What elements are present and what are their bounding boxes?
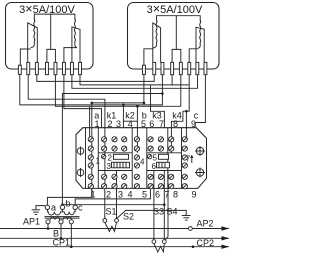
mounting hole left bottom <box>77 169 84 176</box>
link bar plain left <box>114 154 129 159</box>
svg-text:S1: S1 <box>106 206 117 216</box>
wire bus a: PT-a junction to rs1 <box>92 102 144 104</box>
wire rs8 around c label to block <box>195 75 205 128</box>
col 3 <box>112 137 117 142</box>
AP2 circle <box>189 227 193 231</box>
wire below numbers to PT-c <box>75 188 150 205</box>
svg-text:S2: S2 <box>123 212 134 222</box>
left box element 1 jog to stud1 <box>20 49 30 66</box>
wire s3 to rs2 <box>37 75 154 82</box>
plug S3-S4 W <box>154 244 164 252</box>
wire S4 lever down to plug <box>165 210 168 240</box>
col 5 <box>134 137 139 142</box>
right box element 2 jog to stud rs6 <box>189 49 197 63</box>
wire 4-box top bridge <box>123 120 137 122</box>
col 4 <box>122 137 127 142</box>
right box element 1 parallelogram <box>153 23 161 63</box>
svg-text:CP1: CP1 <box>53 238 71 248</box>
left box studs <box>18 65 21 74</box>
wire col1-left drop <box>89 106 91 127</box>
wire PT-b stub to circle <box>61 204 63 207</box>
wire rs6 down around 8 label to block <box>171 75 189 128</box>
block divider 6 <box>181 128 183 189</box>
plug S1-S2 circles <box>103 219 107 223</box>
svg-text:5: 5 <box>142 190 147 200</box>
wire PT-a long vertical through block <box>91 103 93 197</box>
PT secondary circles <box>46 220 50 224</box>
svg-text:6: 6 <box>152 162 157 171</box>
bus line L1 <box>0 228 229 230</box>
terminal circles grid <box>88 137 187 189</box>
meter box left outline <box>6 3 94 70</box>
left box element 1 parallelogram <box>28 23 38 63</box>
col 7 <box>158 137 163 142</box>
svg-text:6: 6 <box>155 190 160 200</box>
col 8 <box>169 137 174 142</box>
link bar plain right <box>159 154 169 159</box>
left box element 1 coil (wavy) <box>31 19 35 48</box>
mid extra circle left <box>101 154 105 158</box>
left box element 2 jog to stud6 <box>64 48 77 63</box>
left box top wire <box>34 14 75 20</box>
svg-text:CP2: CP2 <box>197 238 215 248</box>
block mid horizontal lines <box>98 152 132 154</box>
svg-text:c: c <box>78 203 83 213</box>
mid extra circle right <box>147 154 151 158</box>
svg-text:7: 7 <box>164 190 169 200</box>
svg-text:8: 8 <box>173 190 178 200</box>
wire k3 bypass down around k3 label <box>151 85 165 128</box>
svg-text:1: 1 <box>90 190 95 200</box>
arrow L3 <box>222 245 230 249</box>
arrow L1 <box>222 226 230 230</box>
right box element 1 coil (wavy) <box>153 20 157 48</box>
wire s6 to block col2-left <box>64 75 102 128</box>
svg-text:3: 3 <box>118 190 123 200</box>
mounting hole left top <box>77 148 84 155</box>
col 6 <box>148 137 153 142</box>
junction dot PT-a <box>91 102 94 105</box>
mounting hole right bottom <box>196 169 203 176</box>
block left divider <box>85 128 87 189</box>
secondary drop to L1 <box>47 224 49 229</box>
meter box right outline <box>128 3 220 70</box>
wire col7 down via dot to plug S4 <box>163 188 165 239</box>
link bar hatched right <box>157 162 170 168</box>
wire col2 down to plug S1 <box>104 188 106 218</box>
wire s8 along to rs6 vertical <box>80 75 189 85</box>
PT primary winding T2 <box>62 210 75 215</box>
right box studs <box>143 65 146 74</box>
right box element 1 jog to stud rs1 <box>144 49 153 66</box>
PT core lines <box>45 216 80 218</box>
svg-text:4: 4 <box>127 190 132 200</box>
svg-text:9: 9 <box>191 190 196 200</box>
bus line L3 <box>0 246 229 248</box>
left box element 2 coil (wavy) <box>74 19 77 48</box>
wire s2 down to block col2 <box>28 75 105 128</box>
CP2 dot <box>192 245 195 248</box>
small arrow next to 7 <box>191 156 193 163</box>
col 9 <box>182 137 187 142</box>
S4 ground wire <box>168 210 186 215</box>
svg-text:3: 3 <box>107 162 112 171</box>
wire col4 drop <box>122 105 124 128</box>
junction dot col5 <box>136 105 139 108</box>
wire col9 drop <box>185 111 187 128</box>
secondary drop to L2 <box>60 224 62 238</box>
right box mid fork wire to studs rs4,rs5 <box>172 16 176 63</box>
right box element 2 parallelogram <box>196 27 204 62</box>
PT primary winding T1 <box>47 210 62 215</box>
wire block col1 down to PT-a <box>47 188 91 205</box>
plug S3-S4 circles <box>152 240 156 244</box>
block divider 4 <box>146 128 148 189</box>
wire S4 feed vertical <box>167 188 169 210</box>
wire col6 down to plug S3 <box>153 188 155 239</box>
wire s5 to rs5 <box>55 75 180 107</box>
svg-text:7: 7 <box>186 155 191 164</box>
ground symbol right <box>182 215 191 217</box>
ground symbol left <box>36 206 45 210</box>
left box mid fork wire to studs 4,5 <box>47 14 51 63</box>
svg-text:a: a <box>51 203 56 213</box>
wire s1 to rs3 <box>20 74 163 105</box>
svg-text:1: 1 <box>96 157 101 166</box>
junction dot col4 <box>122 104 125 107</box>
wire s7 to rs7 <box>72 75 198 89</box>
bus line L2 <box>0 237 229 239</box>
svg-text:b: b <box>66 199 71 209</box>
wire PT-b horizontal <box>62 204 164 206</box>
arrow L2 <box>222 236 230 240</box>
block divider 3 <box>131 128 133 189</box>
svg-text:S4: S4 <box>167 207 178 217</box>
col 2 <box>102 137 107 142</box>
S2 lever wire <box>117 210 168 218</box>
wire rs4 stub down to that line <box>171 75 173 85</box>
svg-text:S3: S3 <box>153 207 164 217</box>
wire rs1 down to bus <box>143 75 145 103</box>
col 1 <box>88 137 93 142</box>
link bar hatched left <box>112 162 130 168</box>
mounting hole right top <box>196 147 203 154</box>
wire col3 down to plug S2 <box>116 188 118 218</box>
wire col5 drop <box>136 106 138 127</box>
block divider 2 <box>97 128 99 189</box>
right box element 2 coil (wavy) <box>198 20 201 48</box>
secondary drop to L3 <box>70 224 72 247</box>
svg-text:4: 4 <box>140 158 145 167</box>
left box element 2 parallelogram <box>72 27 80 63</box>
intra-block wire segments <box>90 128 187 189</box>
right box top wire <box>157 16 201 21</box>
junction dot rs1 on bus <box>143 102 146 105</box>
plug S1-S2 W <box>105 222 117 231</box>
PT primary circles a b c <box>45 205 49 209</box>
svg-text:2: 2 <box>106 190 111 200</box>
svg-text:3×5A/100V: 3×5A/100V <box>147 2 203 16</box>
block divider 5 <box>167 128 169 189</box>
terminal block outline (octagon) <box>76 128 207 189</box>
PT secondary winding T1 <box>50 217 59 220</box>
PT secondary winding T2 <box>63 217 72 220</box>
svg-text:AP1: AP1 <box>23 217 40 227</box>
wire b-phase: rs3 junction to PT-b <box>62 94 162 205</box>
svg-text:AP2: AP2 <box>197 219 214 229</box>
